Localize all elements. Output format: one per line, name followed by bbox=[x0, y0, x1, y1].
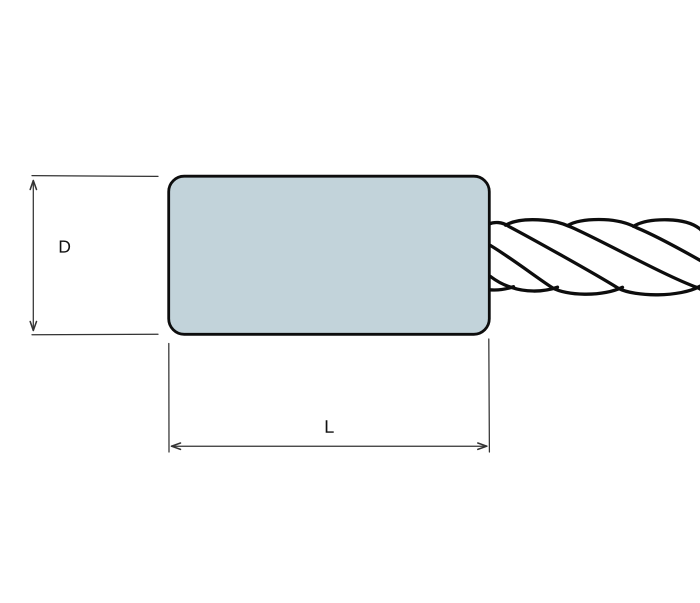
rope strand stroke D: top hump and diagonal bbox=[568, 220, 700, 262]
L right extension line bbox=[488, 339, 491, 452]
label L (length) bbox=[326, 420, 334, 433]
rope strand stroke Z: diagonal tail and bottom hump bbox=[491, 277, 558, 292]
L left extension line bbox=[168, 344, 170, 453]
L dimension arrow shaft bbox=[172, 445, 487, 447]
D top extension line bbox=[32, 175, 158, 178]
rope strand stroke Y: bottom hump tail at ferrule bbox=[490, 287, 514, 290]
rope strand stroke A: diagonal from ferrule and bottom hump bbox=[491, 246, 623, 295]
D bottom extension line bbox=[32, 333, 158, 336]
rope strand stroke E: top hump cut by canvas edge bbox=[634, 220, 700, 233]
rope strand stroke C: top hump and diagonal bbox=[506, 220, 700, 291]
L arrowhead left bbox=[172, 443, 181, 449]
dimension lines bbox=[30, 176, 489, 452]
L arrowhead right bbox=[478, 443, 487, 449]
D arrowhead bottom bbox=[30, 322, 36, 331]
rope strand stroke B: partial top hump, diagonal, bottom hump bbox=[489, 223, 700, 295]
wire rope (behind ferrule) bbox=[489, 220, 700, 295]
ferrule body (rounded rectangle) bbox=[169, 176, 490, 334]
D dimension arrow shaft bbox=[32, 181, 34, 331]
label D (diameter) bbox=[60, 241, 70, 253]
D arrowhead top bbox=[30, 181, 36, 190]
